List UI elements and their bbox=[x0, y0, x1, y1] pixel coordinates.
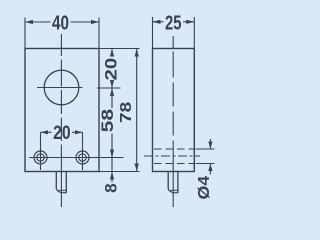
svg-text:Ø4: Ø4 bbox=[196, 175, 213, 199]
mounting holes horizontal centerline bbox=[29, 157, 124, 159]
dimension 40 line bbox=[25, 20, 99, 24]
lens circle bbox=[44, 70, 79, 105]
mounting hole vertical centerline left bbox=[40, 132, 42, 170]
dimension 8 (holes to bottom) line with outside arrows bbox=[110, 158, 114, 183]
front view vertical centerline (dashed part) bbox=[60, 34, 62, 165]
dimension 25 line bbox=[153, 20, 195, 24]
svg-text:40: 40 bbox=[52, 12, 69, 35]
hidden hole line upper bbox=[154, 148, 194, 150]
front view vertical centerline (solid lower part) bbox=[60, 165, 62, 207]
svg-text:25: 25 bbox=[165, 12, 182, 35]
side view body outline bbox=[153, 49, 195, 172]
dimension 78 (total height) line bbox=[135, 49, 139, 172]
side view vertical centerline (dashed part) bbox=[172, 36, 174, 165]
svg-text:58: 58 bbox=[99, 109, 117, 132]
mounting hole right bbox=[76, 151, 89, 164]
dia4 dimension arrows (outside) bbox=[208, 139, 212, 175]
svg-text:20: 20 bbox=[103, 58, 121, 81]
svg-text:78: 78 bbox=[118, 101, 135, 123]
dimension 25 extension line left bbox=[152, 17, 154, 49]
dia4 extension line upper bbox=[196, 148, 215, 150]
svg-text:20: 20 bbox=[53, 123, 71, 144]
lens centerline extension line (right) bbox=[97, 87, 121, 89]
dimension 40 extension line left bbox=[24, 18, 26, 49]
bottom edge extension line (right) bbox=[99, 171, 140, 173]
front view body outline bbox=[25, 49, 99, 172]
mounting hole left bbox=[34, 151, 47, 164]
lens circle horizontal centerline bbox=[37, 87, 83, 89]
hole horizontal centerline side view bbox=[144, 155, 200, 157]
dimension 40 extension line right bbox=[98, 18, 100, 49]
cable stub side view bbox=[168, 172, 178, 193]
dimension 25 extension line right bbox=[193, 17, 195, 49]
dia4 extension line lower bbox=[196, 163, 215, 165]
dimension 58 (lens center to holes) line bbox=[110, 88, 114, 158]
svg-text:8: 8 bbox=[103, 183, 121, 193]
top edge extension line (right) bbox=[99, 48, 140, 50]
dimension 20 (top to lens center) line bbox=[110, 49, 114, 89]
side view vertical centerline (solid lower part) bbox=[172, 165, 174, 207]
dimension 20 (hole spacing) line bbox=[41, 130, 83, 134]
hidden hole line lower bbox=[154, 163, 194, 165]
cable stub front view bbox=[56, 172, 66, 193]
mounting hole vertical centerline right bbox=[82, 132, 84, 170]
